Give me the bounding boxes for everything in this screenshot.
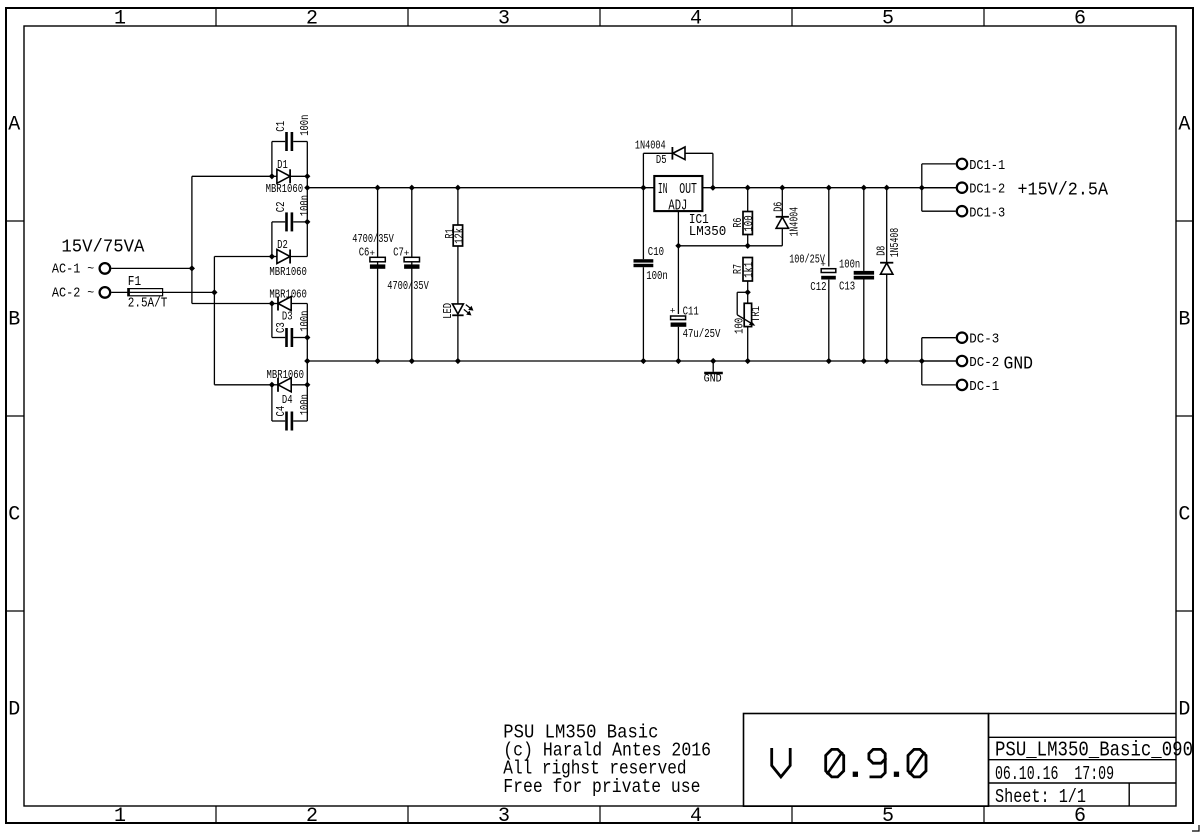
svg-text:6: 6 (1074, 805, 1086, 828)
svg-text:C4: C4 (274, 406, 288, 417)
svg-text:OUT: OUT (679, 182, 697, 198)
svg-text:47u/25V: 47u/25V (683, 327, 721, 341)
svg-text:DC-1: DC-1 (969, 380, 999, 395)
svg-text:C3: C3 (274, 322, 288, 333)
svg-text:Free for private use: Free for private use (503, 776, 700, 798)
svg-text:D8: D8 (875, 246, 889, 256)
svg-text:AC-1: AC-1 (52, 263, 80, 278)
svg-text:+: + (404, 248, 410, 259)
svg-text:~: ~ (87, 287, 94, 300)
svg-text:D4: D4 (282, 393, 293, 407)
svg-text:5: 5 (882, 805, 894, 828)
svg-text:MBR1060: MBR1060 (266, 182, 304, 196)
svg-text:C7: C7 (393, 245, 404, 259)
svg-text:1: 1 (114, 8, 126, 31)
svg-text:4700/35V: 4700/35V (387, 279, 429, 293)
svg-text:A: A (8, 114, 20, 137)
svg-text:1N4004: 1N4004 (635, 139, 666, 153)
svg-text:2: 2 (306, 805, 318, 828)
svg-text:DC1-2: DC1-2 (969, 183, 1005, 198)
svg-text:R1: R1 (443, 229, 457, 239)
svg-text:GND: GND (704, 373, 722, 385)
svg-text:D2: D2 (277, 238, 288, 252)
svg-text:100n: 100n (646, 269, 668, 283)
svg-text:MBR1060: MBR1060 (267, 368, 305, 382)
svg-text:C6: C6 (359, 245, 370, 259)
svg-text:1N5408: 1N5408 (888, 228, 902, 258)
svg-text:15V/75VA: 15V/75VA (61, 238, 144, 258)
svg-text:R7: R7 (731, 264, 745, 274)
svg-text:100n: 100n (298, 394, 312, 415)
svg-text:1: 1 (114, 805, 126, 828)
svg-text:DC-2: DC-2 (969, 356, 999, 371)
svg-text:LM350: LM350 (689, 224, 727, 240)
svg-text:+: + (820, 259, 826, 270)
svg-text:C11: C11 (683, 304, 699, 318)
svg-text:DC1-1: DC1-1 (969, 159, 1005, 174)
svg-text:~: ~ (87, 263, 94, 276)
svg-text:C12: C12 (810, 280, 826, 294)
svg-text:MBR1060: MBR1060 (269, 287, 307, 301)
svg-text:C: C (1178, 504, 1190, 527)
svg-text:4: 4 (690, 8, 702, 31)
svg-text:06.10.16 17:09: 06.10.16 17:09 (995, 763, 1114, 785)
svg-text:100n: 100n (298, 311, 312, 332)
svg-text:+: + (670, 306, 676, 317)
svg-text:C2: C2 (274, 202, 288, 213)
svg-text:D3: D3 (282, 310, 293, 324)
svg-text:1N4004: 1N4004 (787, 207, 801, 237)
svg-text:+15V/2.5A: +15V/2.5A (1018, 181, 1109, 201)
svg-text:IN: IN (658, 182, 668, 198)
svg-text:100: 100 (733, 318, 747, 334)
svg-text:C1: C1 (274, 121, 288, 132)
svg-text:D5: D5 (656, 153, 667, 167)
svg-text:D: D (8, 699, 20, 722)
svg-text:2: 2 (306, 8, 318, 31)
svg-text:D: D (1178, 699, 1190, 722)
svg-text:B: B (1178, 309, 1190, 332)
svg-text:B: B (8, 309, 20, 332)
svg-text:4700/35V: 4700/35V (352, 232, 394, 246)
svg-text:AC-2: AC-2 (52, 287, 80, 302)
svg-text:C13: C13 (839, 279, 855, 293)
svg-text:MBR1060: MBR1060 (269, 265, 307, 279)
svg-text:DC-3: DC-3 (969, 333, 999, 348)
svg-text:6: 6 (1074, 8, 1086, 31)
svg-text:LED: LED (441, 303, 455, 319)
svg-text:TR1: TR1 (749, 306, 763, 322)
svg-text:Sheet: 1/1: Sheet: 1/1 (995, 786, 1086, 808)
svg-text:GND: GND (1004, 355, 1034, 375)
svg-text:+: + (369, 248, 375, 259)
svg-text:3: 3 (498, 8, 510, 31)
svg-text:100n: 100n (298, 115, 312, 136)
svg-text:R6: R6 (731, 218, 745, 228)
svg-text:2.5A/T: 2.5A/T (128, 297, 168, 312)
svg-text:3: 3 (498, 805, 510, 828)
svg-text:100n: 100n (298, 195, 312, 216)
svg-text:D6: D6 (772, 202, 786, 212)
svg-text:D1: D1 (277, 158, 288, 172)
svg-text:C10: C10 (648, 245, 664, 259)
svg-text:5: 5 (882, 8, 894, 31)
svg-text:F1: F1 (128, 275, 141, 290)
svg-text:DC1-3: DC1-3 (969, 206, 1005, 221)
svg-text:4: 4 (690, 805, 702, 828)
svg-text:100n: 100n (839, 258, 860, 272)
svg-text:C: C (8, 504, 20, 527)
svg-text:A: A (1178, 114, 1190, 137)
svg-text:PSU_LM350_Basic_090: PSU_LM350_Basic_090 (995, 740, 1193, 763)
